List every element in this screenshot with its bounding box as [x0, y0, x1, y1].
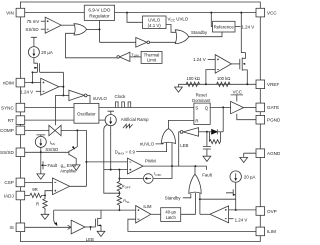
sawtooth waveform icon	[123, 124, 133, 128]
transistor Q2 soft-start clamp	[69, 130, 77, 165]
pin SYNC	[1, 103, 25, 112]
inverter U6 nUVLO	[69, 90, 87, 100]
label nUVLO at OR3	[140, 142, 163, 147]
svg-text:Fault: Fault	[48, 163, 58, 168]
wire nDIM pin to comparator U5	[25, 82, 41, 84]
supply bar VCC gate driver	[231, 95, 243, 102]
label 75 mV	[27, 19, 46, 24]
node IOFF chain	[118, 178, 120, 180]
ground for Q2	[72, 165, 80, 170]
svg-text:6.9-V LDO: 6.9-V LDO	[88, 7, 110, 12]
supply bar above current source I3	[36, 135, 45, 137]
resistor R5 LEB parallel	[209, 132, 220, 144]
wire clamp drop to bowtie	[54, 95, 56, 125]
wire ramp source down to PWM plus	[110, 126, 112, 170]
transistor Q6 VREF pass	[240, 13, 248, 85]
wire I1 to transistor Q1 drain	[34, 58, 38, 64]
svg-text:COMP: COMP	[0, 128, 14, 133]
svg-text:IOFF: IOFF	[154, 171, 161, 177]
svg-text:SYNC: SYNC	[1, 105, 14, 110]
resistor R3 ROFF	[117, 181, 121, 193]
svg-text:UVLO: UVLO	[148, 17, 161, 22]
wire latch output to fault OR	[181, 193, 196, 214]
node Q1 source	[32, 71, 34, 73]
wire Q1 source to nDIM node	[31, 72, 33, 82]
svg-text:RSL: RSL	[123, 198, 130, 204]
svg-text:PGND: PGND	[267, 118, 280, 123]
wire OR4 output up to fault node	[194, 166, 196, 175]
wire IADJ to resistor R1	[25, 194, 30, 196]
label gm Error Amplifier	[60, 163, 77, 173]
wire node B vertical	[62, 72, 64, 95]
ground for C1	[203, 156, 211, 161]
6.9-V LDO Regulator U1	[84, 5, 114, 20]
wire IS pin to LEB buffer	[25, 226, 71, 228]
wire clock line to latch S	[99, 107, 194, 109]
wire hook from summing line to IS	[54, 210, 58, 226]
OR gate OR2 standby	[175, 30, 188, 44]
pin SS/SD	[0, 148, 25, 157]
svg-text:9R: 9R	[32, 187, 38, 192]
wire OR1 output to node A	[87, 28, 100, 30]
svg-text:Latch: Latch	[166, 215, 177, 220]
wire U13 output down to fault line	[179, 132, 181, 166]
svg-text:IADJ: IADJ	[4, 193, 14, 198]
wire inverter U6 to oscillator	[87, 95, 90, 103]
wire ILIM minus to ILIM pin	[128, 219, 256, 231]
pin AGND	[256, 149, 281, 158]
wire UVLO output to standby OR gate	[166, 25, 176, 33]
wire oscillator to ramp source	[99, 119, 105, 121]
svg-text:VIN: VIN	[6, 10, 14, 15]
IC boundary box	[20, 2, 260, 242]
latch U12 reset dominant	[194, 103, 210, 124]
pin nDIM	[3, 78, 25, 87]
node SS/SD	[40, 151, 42, 153]
wire PWM comparator minus line	[86, 161, 127, 163]
pin VREF	[256, 80, 279, 89]
label 1.24 V at U5	[20, 90, 40, 95]
svg-text:Oscillator: Oscillator	[77, 112, 96, 117]
capacitor C1 LEB	[203, 132, 211, 156]
pin ILIM	[256, 227, 276, 236]
node ramp on plus line	[110, 169, 112, 171]
wire node A to inverter U4	[100, 41, 136, 43]
svg-text:IS: IS	[9, 225, 13, 230]
node feedback tap	[205, 83, 207, 85]
svg-text:75 mV: 75 mV	[27, 19, 40, 24]
wire OR3 output to latch R	[169, 120, 194, 129]
svg-text:AGND: AGND	[267, 151, 280, 156]
resistor R2 R	[43, 195, 47, 214]
svg-text:Standby: Standby	[191, 30, 208, 35]
wire latch Q to gate driver	[210, 106, 230, 108]
resistor R4 RSL	[117, 193, 121, 210]
svg-text:R: R	[36, 201, 39, 206]
transistor Q4 blanking	[95, 210, 101, 231]
svg-text:VCC UVLO: VCC UVLO	[168, 17, 189, 23]
wire OVP net to Q5 source	[200, 198, 236, 200]
ground for VREF divider	[175, 87, 183, 92]
node A	[99, 28, 101, 30]
transistor Q3 fault discharge	[41, 152, 47, 174]
wire OR2 output to reference enable	[189, 32, 222, 37]
wire U15 minus feedback	[206, 70, 215, 85]
OR gate OR4 fault	[189, 174, 201, 193]
wire inverter U4 to standby OR gate	[150, 41, 176, 43]
current source I1 20uA	[28, 47, 39, 58]
switch bar above ramp source	[108, 111, 114, 114]
OR gate OR3 reset	[162, 129, 176, 144]
wire DMAX to OR3	[136, 142, 166, 151]
ground at AGND	[240, 157, 248, 162]
svg-text:ILIM: ILIM	[143, 204, 152, 209]
node B lower	[62, 94, 64, 96]
wire VIN to LDO input	[25, 12, 85, 14]
svg-text:100 kΩ: 100 kΩ	[217, 76, 230, 81]
clock pulse train icon	[116, 102, 131, 108]
wire SYNC to oscillator	[25, 107, 74, 109]
supply bar above current source I1	[31, 37, 37, 46]
wire U9 output to Q4 gate	[85, 226, 95, 228]
wire ramp arc to slope tap	[104, 125, 120, 194]
comparator U8 PWM	[128, 158, 144, 174]
buffer U9 LEB	[71, 220, 85, 234]
node B upper	[62, 86, 64, 88]
svg-text:ISS: ISS	[50, 140, 55, 146]
svg-text:1.24 V: 1.24 V	[242, 24, 255, 29]
OR gate OR1	[74, 24, 87, 35]
node COMP clamp BJT	[76, 129, 78, 131]
svg-text:LEB: LEB	[180, 143, 188, 148]
current source I5 20uA	[230, 171, 241, 182]
current source I3 ISS	[35, 136, 46, 147]
pin COMP	[0, 126, 25, 135]
wire thermal limit box to inverter U3	[130, 56, 141, 58]
svg-text:Regulator: Regulator	[89, 13, 110, 18]
node IADJ divider	[44, 194, 46, 196]
inverter U13 LEB	[180, 128, 198, 137]
wire PWM branch up to OR3	[171, 142, 173, 166]
resistor R6 100k	[186, 82, 200, 86]
wire LEB network top	[217, 131, 223, 133]
wire AGND pin to ground	[244, 153, 256, 157]
node LDO/UVLO junction	[126, 12, 128, 14]
comparator U5 nDIM	[41, 78, 59, 95]
wire COMP down to error amp output	[85, 130, 87, 186]
svg-text:R: R	[195, 119, 198, 124]
svg-text:PWM: PWM	[145, 159, 156, 164]
svg-text:ILIM: ILIM	[267, 229, 276, 234]
wire OVP net vertical	[199, 193, 201, 214]
svg-text:nUVLO: nUVLO	[93, 96, 108, 101]
resistor R7 100k	[217, 82, 231, 86]
svg-text:nDIM: nDIM	[3, 80, 14, 85]
svg-text:Dominant: Dominant	[192, 98, 211, 103]
wire PWM comparator plus line	[104, 169, 128, 171]
40-us Latch block	[161, 208, 181, 222]
label SS/SD input	[25, 27, 45, 32]
svg-text:1.24 V: 1.24 V	[235, 218, 248, 223]
svg-text:VCC: VCC	[267, 10, 277, 15]
pin GATE	[256, 103, 279, 112]
wire U15 output to Q6 gate	[231, 63, 239, 65]
label Fault stub	[195, 166, 212, 178]
ground for Q4	[97, 231, 105, 236]
wire CSP to error amp minus	[25, 181, 53, 183]
node OVP net	[199, 198, 201, 200]
svg-text:SS/SD: SS/SD	[0, 150, 14, 155]
Thermal Limit block	[141, 51, 162, 63]
svg-text:SS/SD: SS/SD	[25, 27, 38, 32]
pin PGND	[256, 115, 281, 124]
wire U14 return to PGND	[237, 114, 256, 120]
node Q6 drain at VCC	[240, 12, 242, 14]
svg-text:40-µs: 40-µs	[165, 209, 176, 214]
wire LDO bottom to node A	[99, 20, 101, 42]
wire U10 output to latch	[151, 213, 161, 215]
svg-text:RT: RT	[8, 118, 14, 123]
svg-text:20 µA: 20 µA	[41, 50, 53, 55]
node PWM OR3 branch	[171, 165, 173, 167]
wire Q1 gate to node B vertical	[40, 71, 64, 73]
Reference block	[213, 21, 236, 32]
wire Q branch down to LEB network	[222, 107, 224, 131]
svg-text:DMAX = 0.9: DMAX = 0.9	[115, 149, 136, 155]
gate driver U14	[231, 101, 244, 113]
svg-text:VREF: VREF	[267, 82, 279, 87]
wire U8 output to fault node line	[143, 165, 195, 167]
pin CSP	[4, 178, 24, 187]
svg-text:SS/SD: SS/SD	[45, 147, 58, 152]
label 1.24 V reference output	[235, 24, 254, 29]
node chain bottom	[118, 209, 120, 211]
inverter U4 standby path	[136, 38, 150, 48]
diode D2 LEB	[212, 129, 218, 134]
wire U11 output to OVP net	[200, 213, 210, 215]
node slope tap	[118, 192, 120, 194]
svg-text:20 µA: 20 µA	[244, 174, 256, 179]
node Q6 source at rail	[246, 83, 248, 85]
svg-text:1.24 V: 1.24 V	[20, 90, 33, 95]
wire RT to oscillator	[25, 119, 74, 121]
pin RT	[8, 116, 25, 125]
label Reset Dominant	[192, 93, 211, 103]
svg-text:1.24 V: 1.24 V	[193, 57, 206, 62]
wire SS/SD pin to clamp base	[25, 151, 69, 153]
resistor R1 9R	[30, 193, 45, 197]
wire VREF rail	[179, 83, 257, 85]
svg-text:100 kΩ: 100 kΩ	[187, 76, 200, 81]
node LEB cap	[206, 131, 208, 133]
wire IOFF to divider chain	[119, 178, 143, 180]
svg-text:VCC: VCC	[233, 90, 242, 95]
current source I4 IOFF	[144, 174, 154, 184]
wire VCC to reference input	[211, 13, 212, 27]
ground for Q3	[37, 174, 45, 179]
wire rail to ground	[178, 84, 180, 87]
node fault	[194, 165, 196, 167]
svg-text:S: S	[195, 105, 198, 110]
UVLO (4.1 V) block	[143, 16, 167, 29]
wire IOFF branch	[153, 166, 172, 178]
svg-text:OVP: OVP	[267, 209, 277, 214]
wire U5 output to node B	[59, 86, 64, 88]
wire U11 plus to OVP pin	[229, 209, 256, 211]
node Q branch	[222, 106, 224, 108]
transistor Q1	[32, 63, 39, 73]
svg-text:ROFF: ROFF	[122, 184, 131, 190]
Oscillator block	[74, 103, 99, 123]
wire slope summing line	[54, 209, 136, 211]
svg-text:Standby: Standby	[165, 196, 182, 201]
wire COMP pin through clamp	[25, 129, 87, 131]
transistor Q5 hysteresis	[226, 183, 236, 210]
inverter U3 thermal	[117, 52, 130, 61]
wire U14 output to GATE pin	[244, 107, 256, 109]
pin IS	[9, 223, 24, 232]
svg-text:(4.1 V): (4.1 V)	[148, 23, 162, 28]
svg-text:Amplifier: Amplifier	[60, 168, 77, 173]
arrow on IS wire	[68, 225, 71, 229]
comparator U11 OVP	[210, 206, 229, 223]
pin VCC	[256, 8, 277, 17]
svg-text:Fault: Fault	[202, 173, 212, 178]
pin OVP	[256, 207, 277, 216]
comparator U10 ILIM	[136, 206, 151, 223]
node reference feed	[210, 12, 212, 14]
wire diode anode to cap node	[199, 131, 212, 133]
op-amp U15 VREF	[215, 55, 231, 74]
error amplifier U7	[53, 178, 70, 195]
wire junction to UVLO input	[127, 13, 143, 23]
wire node B to inverter U6 and clamp drop	[55, 94, 69, 96]
wire I3 to SS/SD net	[40, 147, 42, 152]
wire LDO output to VCC pin	[115, 12, 256, 14]
wire thermal inverter to OR1 input	[66, 33, 117, 58]
comparator U2 VIN 75mV	[45, 17, 61, 33]
svg-text:Reference: Reference	[214, 24, 235, 29]
node LEB label stub	[90, 226, 92, 230]
wire comparator U2 output to OR1	[61, 24, 75, 26]
ground for R2	[41, 214, 49, 219]
current source I2 artificial ramp	[105, 115, 116, 126]
label 1.24 V at OVP	[229, 218, 248, 223]
svg-text:Limit: Limit	[147, 58, 157, 63]
pin IADJ	[4, 191, 25, 200]
label 1.24 V at op amp	[193, 57, 215, 62]
clamp D1 bowtie	[49, 125, 61, 136]
svg-text:LEB: LEB	[86, 237, 94, 242]
node OVP plus	[235, 209, 237, 211]
svg-text:nUVLO: nUVLO	[140, 142, 155, 147]
svg-text:Artificial Ramp: Artificial Ramp	[121, 117, 149, 122]
wire chain upper	[118, 170, 120, 182]
svg-text:Clock: Clock	[115, 94, 127, 99]
pin VIN	[6, 8, 25, 17]
wire divider to error amp plus	[45, 191, 53, 196]
node chain top on plus line	[118, 169, 120, 171]
node COMP to PWM minus	[85, 161, 87, 163]
svg-text:CSP: CSP	[4, 180, 13, 185]
svg-text:GATE: GATE	[267, 105, 279, 110]
wire error amp output to COMP vertical	[70, 185, 87, 187]
svg-text:Reset: Reset	[196, 93, 208, 98]
node nDIM	[31, 82, 33, 84]
label Standby at fault OR	[165, 194, 191, 201]
